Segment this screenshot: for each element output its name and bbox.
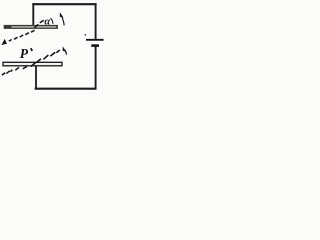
wire top-left vertical (down to top plate) <box>32 3 34 25</box>
node P tick mark <box>31 48 32 51</box>
dashed rotated-plate line (lower left of bottom plate) <box>2 67 27 76</box>
rotation arrow (bottom, curved, head up) <box>63 46 67 54</box>
battery long terminal <box>86 39 104 41</box>
angle arc <box>51 18 53 24</box>
wire bottom horizontal <box>35 88 97 90</box>
wire bottom-left vertical (from bottom plate) <box>35 66 37 89</box>
rotation arrow (top, curved, head up) <box>60 12 64 25</box>
dashed rotated-plate line (rises to upper right, crossing plate near wire) <box>35 20 44 28</box>
battery short terminal <box>91 44 99 47</box>
wire right vertical lower <box>95 46 97 89</box>
wire right vertical upper <box>95 3 97 39</box>
wire top horizontal <box>32 3 96 5</box>
capacitor bottom plate <box>3 62 62 66</box>
svg-text:P: P <box>20 46 29 61</box>
capacitor top plate <box>4 25 58 29</box>
svg-text:α: α <box>44 16 50 27</box>
background <box>0 0 106 95</box>
dashed rotated-plate line (crosses plate, rises to upper right) <box>31 50 60 67</box>
dashed arrow for left part of top plate (points down-left) <box>1 30 34 45</box>
speckle dot near battery <box>85 34 87 36</box>
